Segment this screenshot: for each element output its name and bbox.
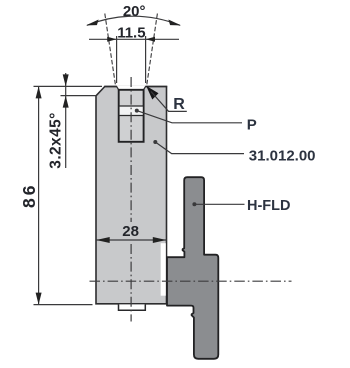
86 ext line top (shared) bbox=[34, 85, 103, 87]
punch body 31.012.00 bbox=[96, 87, 167, 304]
pin band top line bbox=[119, 105, 144, 107]
svg-text:H-FLD: H-FLD bbox=[247, 198, 291, 214]
P leader line bbox=[137, 111, 242, 123]
28 dim line bbox=[96, 239, 167, 241]
86 arrow top bbox=[36, 86, 42, 98]
pin band bottom line bbox=[119, 115, 144, 117]
11.5 arrow left bbox=[107, 37, 116, 42]
3.2x45 dim line vertical bbox=[65, 73, 67, 168]
svg-text:R: R bbox=[173, 96, 185, 113]
86 dim line bbox=[38, 86, 40, 304]
11.5 arrow right bbox=[146, 37, 155, 42]
H-FLD leader dot bbox=[192, 202, 196, 206]
arc arrow right bbox=[168, 20, 181, 26]
3.2x45 arrow up bbox=[63, 96, 69, 108]
31.012.00 leader line bbox=[155, 142, 244, 154]
arc arrow left bbox=[86, 20, 99, 26]
svg-text:31.012.00: 31.012.00 bbox=[249, 147, 316, 164]
11.5 ext line left bbox=[116, 36, 118, 83]
svg-text:20°: 20° bbox=[123, 3, 146, 20]
R leader arrow bbox=[146, 86, 158, 100]
horizontal centerline bbox=[90, 280, 292, 282]
86 arrow bottom bbox=[36, 293, 42, 305]
11.5 dim line bbox=[89, 38, 179, 40]
punch top surface right bbox=[145, 86, 167, 88]
31.012.00 leader dot bbox=[153, 140, 157, 144]
bottom tab groove bbox=[119, 304, 146, 310]
H-FLD leader line bbox=[194, 203, 244, 205]
svg-text:28: 28 bbox=[122, 223, 139, 240]
V wall extension left bbox=[105, 14, 116, 87]
P leader dot bbox=[135, 109, 139, 113]
11.5 ext line right bbox=[145, 36, 147, 83]
pin band white bbox=[120, 106, 143, 115]
3.2x45 arrow down bbox=[63, 74, 69, 86]
svg-text:11.5: 11.5 bbox=[117, 25, 145, 42]
V wall right bbox=[143, 86, 145, 90]
R leader line bbox=[151, 92, 187, 112]
holder H-FLD bbox=[167, 177, 218, 359]
86 ext line bottom bbox=[34, 304, 93, 306]
28 arrow right bbox=[153, 237, 167, 243]
punch top surface left bbox=[104, 86, 117, 88]
svg-text:3.2x45°: 3.2x45° bbox=[48, 112, 65, 168]
V wall extension right bbox=[147, 14, 158, 87]
clamping slot P bbox=[119, 90, 144, 142]
svg-text:86: 86 bbox=[19, 183, 39, 208]
svg-text:P: P bbox=[247, 117, 257, 134]
V-notch white wedge bbox=[117, 86, 146, 90]
3.2x45 ext line chamfer bottom bbox=[61, 95, 97, 97]
safety notch white gap on punch right side bbox=[161, 243, 166, 296]
vertical centerline lower bbox=[130, 244, 132, 322]
28 arrow left bbox=[96, 237, 110, 243]
V wall left bbox=[117, 86, 119, 90]
20 deg arc bbox=[87, 16, 180, 25]
vertical centerline bbox=[130, 77, 132, 222]
